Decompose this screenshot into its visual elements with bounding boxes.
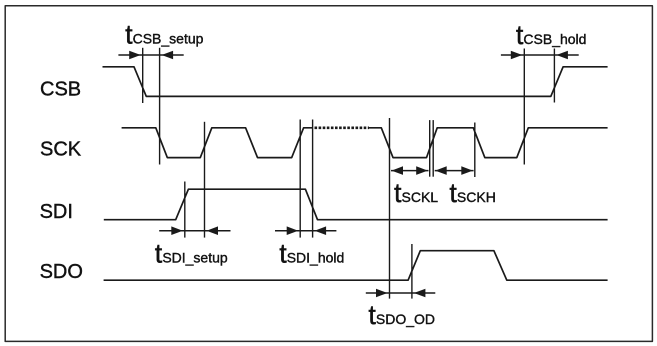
arrowhead csb hold right	[556, 51, 568, 60]
arrowhead csb setup left	[129, 51, 141, 60]
dimension line t_SCKL	[391, 170, 429, 172]
marker line sdi hold right	[312, 120, 314, 238]
svg-text:SDO: SDO	[40, 261, 83, 283]
svg-text:SDI: SDI	[40, 201, 73, 223]
signal SDO waveform	[104, 251, 608, 281]
marker line csb hold left (sck last rise)	[523, 49, 525, 165]
arrowhead sckl left	[392, 166, 404, 175]
marker line sckl right	[429, 120, 431, 177]
marker line sckh left	[432, 120, 434, 177]
arrowhead sdi hold right	[315, 226, 327, 235]
arrowhead sdi hold left	[287, 226, 299, 235]
marker line sdi hold left (sck rise 2)	[299, 120, 301, 238]
dimension line t_SDI_setup	[159, 230, 230, 232]
dimension line t_SDO_OD	[366, 292, 436, 294]
signal SCK waveform solid left	[122, 128, 313, 158]
arrowhead sdo right	[414, 289, 426, 298]
dimension line t_CSB_hold	[501, 54, 579, 56]
signal SCK waveform solid right	[369, 128, 608, 158]
marker line sdi setup right (sck rise 1)	[204, 122, 206, 238]
marker line sckh right	[474, 123, 476, 178]
signal SCK dashed segment	[315, 126, 370, 129]
arrowhead sckh left	[435, 166, 447, 175]
svg-text:tCSB_hold: tCSB_hold	[516, 20, 587, 50]
signal SDI waveform	[104, 189, 608, 220]
arrowhead sdi setup right	[207, 226, 219, 235]
svg-text:tSCKL: tSCKL	[394, 178, 438, 208]
marker line csb setup right (sck first fall)	[159, 48, 161, 165]
svg-text:SCK: SCK	[40, 138, 82, 160]
dimension line t_CSB_setup	[118, 54, 183, 56]
arrowhead sckl right	[416, 166, 428, 175]
dimension line t_SCKH	[435, 170, 474, 172]
arrowhead csb setup right	[162, 51, 174, 60]
signal CSB waveform	[103, 67, 608, 97]
marker line csb setup left	[142, 48, 144, 103]
svg-text:tSCKH: tSCKH	[449, 178, 495, 208]
svg-text:tSDI_setup: tSDI_setup	[155, 238, 228, 268]
svg-text:tSDI_hold: tSDI_hold	[279, 238, 344, 268]
marker line sckl left / sdo left (tall)	[389, 118, 391, 299]
marker line sdi setup left	[184, 182, 186, 238]
svg-text:CSB: CSB	[40, 78, 81, 100]
arrowhead sdi setup left	[171, 226, 183, 235]
svg-text:tCSB_setup: tCSB_setup	[125, 20, 204, 50]
marker line sdo right (sdo rise)	[411, 244, 413, 299]
arrowhead sdo left	[376, 289, 388, 298]
arrowhead sckh right	[461, 166, 473, 175]
marker line csb hold right (csb rise)	[553, 49, 555, 103]
dimension line t_SDI_hold	[275, 230, 336, 232]
arrowhead csb hold left	[511, 51, 523, 60]
svg-text:tSDO_OD: tSDO_OD	[368, 300, 435, 330]
